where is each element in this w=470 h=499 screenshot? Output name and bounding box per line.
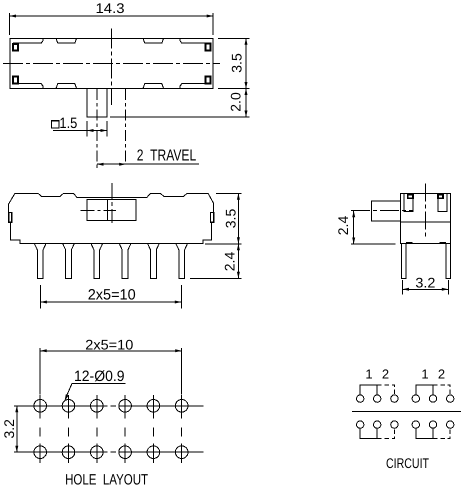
dimension 2.4 line (side view) — [353, 211, 355, 244]
dimension 2x5=10 arrow left (hole layout) — [40, 349, 47, 352]
hole B1 — [34, 446, 47, 459]
front view knob crosshair — [81, 210, 117, 212]
hole column centerline 1 — [39, 395, 41, 463]
circuit separator line — [352, 410, 461, 412]
dimension 3.5 extension line top (top view) — [218, 37, 250, 39]
top view tab top 2 — [143, 38, 164, 43]
top view rim line bottom-left — [13, 84, 43, 89]
hole A3 — [91, 400, 104, 413]
top view tab bottom 1 — [56, 84, 77, 89]
dimension 2.4 arrow bottom (side view) — [352, 238, 355, 245]
hole A4 — [119, 400, 132, 413]
svg-text:CIRCUIT: CIRCUIT — [386, 455, 429, 471]
svg-text:14.3: 14.3 — [96, 0, 125, 16]
dimension 3.5 arrow bottom (front view) — [237, 237, 240, 244]
circuit bottom pole2 contact 1 — [412, 421, 419, 428]
dimension 14.3 extension line left — [9, 13, 11, 35]
circuit top pole2 wire solid — [416, 385, 433, 395]
dimension 1.5 leader line — [53, 130, 107, 132]
hole A2 — [62, 400, 75, 413]
front view knob travel outline — [87, 199, 136, 220]
svg-text:12-Ø0.9: 12-Ø0.9 — [74, 368, 125, 385]
dimension 2x5=10 extension line right (hole layout) — [181, 348, 183, 395]
top view tab bottom 2 — [143, 84, 164, 89]
circuit top pole1 contact 2 — [374, 395, 381, 402]
circuit top pole1 wire dashed — [377, 385, 394, 395]
actuator centerline left position — [96, 89, 98, 168]
label 12-dia0.9 leader — [66, 383, 72, 396]
dimension 3.2 extension line left (side view) — [402, 280, 404, 295]
dimension 3.5 extension line top (front view) — [216, 192, 242, 194]
dimension 1.5 extension tick right — [106, 121, 108, 137]
dimension 3.2 line (hole layout) — [16, 406, 18, 452]
circuit top pole2 contact 3 — [447, 395, 454, 402]
dimension 3.2 arrow left (side view) — [403, 288, 410, 291]
svg-text:2.4: 2.4 — [222, 252, 238, 272]
hole column centerline 4 — [124, 395, 126, 463]
front view knob divider (left position edge) — [106, 199, 108, 220]
dimension 3.2 line (side view) — [403, 288, 449, 290]
dimension 14.3 line — [10, 15, 214, 17]
front view pin 1 — [34, 244, 46, 279]
dimension 3.2 extension line right (side view) — [447, 280, 449, 295]
dimension 2 travel arrow left — [97, 163, 104, 166]
dimension 2x5=10 extension line right (front view) — [180, 285, 182, 308]
dimension 3.5/2.4 line (front view) — [237, 193, 239, 278]
dimension 2 travel line — [97, 163, 199, 165]
hole A1 — [34, 400, 47, 413]
svg-text:3.2: 3.2 — [415, 274, 435, 290]
hole column centerline 3 — [96, 395, 98, 463]
hole column centerline 6 — [181, 395, 183, 463]
front view pin 5 — [148, 244, 160, 279]
dimension 3.5 arrow top (front view) — [237, 193, 240, 200]
label 12-dia0.9 underline — [72, 382, 125, 384]
circuit bottom pole2 wire solid — [416, 428, 433, 438]
side view knob — [372, 201, 401, 221]
side view vertical centerline — [424, 184, 426, 237]
circuit top pole2 wire dashed — [433, 385, 450, 395]
front view pin 3 — [91, 244, 103, 279]
top view corner stake hole top-right — [206, 44, 211, 51]
dimension 3.2 arrow top (hole layout) — [15, 406, 18, 413]
top view corner stake hole bottom-left — [13, 77, 18, 84]
svg-text:2: 2 — [438, 367, 445, 382]
side view stake tab right head — [438, 194, 443, 198]
front view pin 2 — [63, 244, 75, 279]
circuit top pole2 contact 2 — [429, 395, 436, 402]
dimension 2.0 arrow bottom — [245, 111, 248, 118]
dimension 2x5=10 extension line left (hole layout) — [39, 348, 41, 395]
hole B3 — [91, 446, 104, 459]
dimension 2x5=10 arrow left (front view) — [40, 301, 47, 304]
side view knob centerline — [351, 210, 414, 212]
side view body outline — [400, 194, 450, 244]
dimension 3.5 arrow bottom — [245, 82, 248, 89]
dimension 2.4 extension line bottom (front view) — [190, 277, 242, 279]
front view vertical centerline — [111, 183, 113, 223]
actuator centerline right position — [125, 89, 127, 164]
svg-text:2.4: 2.4 — [335, 216, 351, 236]
circuit bottom pole2 contact 2 — [429, 421, 436, 428]
hole A6 — [175, 400, 188, 413]
side view body seam line — [400, 221, 450, 223]
svg-text:2 TRAVEL: 2 TRAVEL — [137, 148, 197, 165]
top view vertical centerline — [110, 29, 112, 106]
dimension 3.5 arrow top — [245, 38, 248, 45]
side view pin back shoulder — [440, 242, 447, 244]
top view corner stake hole top-left — [13, 44, 18, 51]
side view pin front shoulder — [406, 242, 413, 244]
svg-text:2: 2 — [382, 367, 389, 382]
top view corner stake hole bottom-right — [206, 77, 211, 84]
front view side stake tab right — [211, 213, 214, 223]
top view rim line top-right — [180, 38, 206, 43]
svg-text:2.0: 2.0 — [228, 92, 244, 112]
circuit bottom pole1 wire solid — [360, 428, 377, 438]
dimension 2.4 extension line bottom (side view) — [351, 243, 395, 245]
circuit top pole1 wire solid — [360, 385, 377, 395]
svg-text:3.5: 3.5 — [229, 53, 245, 73]
dimension 3.2 arrow bottom (hole layout) — [15, 446, 18, 453]
dimension 1.5 arrow right — [101, 129, 108, 132]
circuit bottom pole1 contact 2 — [374, 421, 381, 428]
dimension 2x5=10 line (hole layout) — [40, 350, 182, 352]
circuit top pole2 contact 1 — [412, 395, 419, 402]
dimension 1.5 square symbol — [52, 121, 59, 128]
circuit bottom pole2 wire dashed — [433, 428, 450, 438]
dimension 2x5=10 arrow right (front view) — [175, 301, 182, 304]
hole row 2 centerline — [14, 451, 204, 453]
top view tab top 1 — [56, 38, 77, 43]
dimension 2x5=10 extension line left (front view) — [39, 285, 41, 308]
svg-text:HOLE LAYOUT: HOLE LAYOUT — [65, 471, 148, 488]
side view stake tab left head — [408, 194, 413, 198]
front view pin 4 — [119, 244, 131, 279]
dimension 2.4 arrow top (front view) — [237, 244, 240, 251]
svg-text:1: 1 — [421, 367, 428, 382]
top view horizontal centerline — [3, 62, 220, 64]
dimension 3.2 arrow right (side view) — [442, 288, 449, 291]
svg-text:3.5: 3.5 — [223, 209, 239, 229]
top view rim line top-left — [13, 38, 43, 43]
hole B4 — [119, 446, 132, 459]
side view stake tab right — [438, 194, 447, 212]
svg-text:2x5=10: 2x5=10 — [88, 286, 136, 303]
hole B2 — [62, 446, 75, 459]
front view body outline — [9, 193, 214, 243]
dimension 14.3 arrow left — [10, 15, 17, 18]
front view side stake tab left — [9, 213, 12, 223]
hole row 1 centerline — [14, 405, 204, 407]
circuit bottom pole1 wire dashed — [377, 428, 394, 438]
svg-text:1: 1 — [365, 367, 372, 382]
hole column centerline 2 — [68, 395, 70, 463]
svg-text:3.2: 3.2 — [1, 419, 17, 439]
circuit top pole1 contact 1 — [357, 395, 364, 402]
dimension 1.5 extension tick left — [86, 121, 88, 137]
label 12-dia0.9 leader arrow — [65, 394, 69, 401]
hole column centerline 5 — [152, 395, 154, 463]
hole A5 — [147, 400, 160, 413]
svg-text:1.5: 1.5 — [59, 115, 77, 132]
front view pin 6 — [176, 244, 188, 279]
hole B5 — [147, 446, 160, 459]
dimension 2.4 arrow top (side view) — [352, 211, 355, 218]
dimension 2.0 arrow top — [245, 89, 248, 96]
dimension 14.3 extension line right — [212, 13, 214, 35]
circuit bottom pole1 contact 1 — [357, 421, 364, 428]
dimension 2x5=10 line (front view) — [40, 301, 181, 303]
dimension 1.5 arrow left — [87, 129, 94, 132]
circuit top pole1 contact 3 — [391, 395, 398, 402]
dimension 2x5=10 arrow right (hole layout) — [175, 349, 182, 352]
circuit bottom pole2 contact 3 — [447, 421, 454, 428]
hole B6 — [175, 446, 188, 459]
side view pin back — [446, 244, 450, 279]
circuit bottom pole1 contact 3 — [391, 421, 398, 428]
top view body outline — [10, 38, 213, 88]
dimension 2.4 arrow bottom (front view) — [237, 272, 240, 279]
dimension 3.5/2.4 shared extension line (front view) — [205, 243, 242, 245]
svg-text:2x5=10: 2x5=10 — [85, 336, 133, 352]
dimension 2 travel arrow right — [119, 163, 126, 166]
dimension 14.3 arrow right — [207, 15, 214, 18]
dimension 3.5/2.0 shared extension line (top view) — [218, 88, 250, 90]
side view pin front — [402, 244, 407, 279]
side view stake tab left — [404, 194, 413, 212]
actuator knob (top view, left position) — [87, 89, 107, 118]
dimension 2.0 extension line bottom (top view) — [110, 116, 250, 118]
dimension 3.5/2.0 line (top view) — [245, 38, 247, 117]
top view rim line bottom-right — [180, 84, 206, 89]
